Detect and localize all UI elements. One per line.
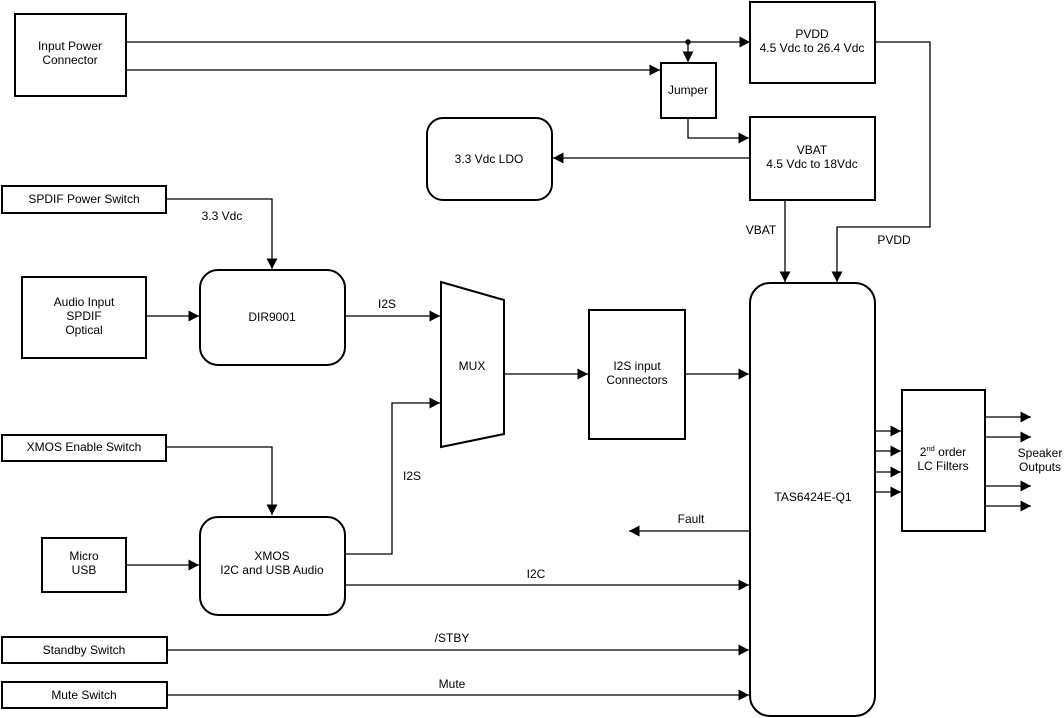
svg-text:LC Filters: LC Filters xyxy=(917,459,968,473)
svg-text:Mute: Mute xyxy=(439,677,466,691)
wire XMOS I2C to TAS6424E-Q1 xyxy=(345,584,749,586)
svg-text:XMOS Enable Switch: XMOS Enable Switch xyxy=(27,440,142,454)
svg-text:I2C and USB Audio: I2C and USB Audio xyxy=(220,563,324,577)
block Mute Switch xyxy=(2,682,167,708)
wire speaker output 4 xyxy=(985,505,1031,507)
svg-text:Standby Switch: Standby Switch xyxy=(43,643,126,657)
wire TAS output 1 to LC filter xyxy=(875,430,901,432)
block DIR9001 xyxy=(200,270,345,365)
block 2nd order LC Filters xyxy=(902,390,985,531)
wire XMOS Enable Switch to XMOS xyxy=(166,447,272,515)
svg-text:PVDD: PVDD xyxy=(877,233,911,247)
svg-text:I2S input: I2S input xyxy=(613,359,661,373)
svg-text:DIR9001: DIR9001 xyxy=(248,310,296,324)
junction dot xyxy=(685,39,691,45)
svg-text:TAS6424E-Q1: TAS6424E-Q1 xyxy=(774,490,851,504)
wire Jumper to VBAT xyxy=(688,118,749,138)
wire PVDD to TAS6424E-Q1 xyxy=(837,42,930,282)
svg-text:Mute Switch: Mute Switch xyxy=(51,688,116,702)
wire PVDD supply from Input Power Connector xyxy=(126,41,750,43)
svg-text:4.5 Vdc to 18Vdc: 4.5 Vdc to 18Vdc xyxy=(766,157,857,171)
svg-text:4.5 Vdc to 26.4 Vdc: 4.5 Vdc to 26.4 Vdc xyxy=(760,41,865,55)
svg-text:SPDIF Power Switch: SPDIF Power Switch xyxy=(28,192,139,206)
block Audio Input SPDIF Optical xyxy=(22,277,146,358)
svg-text:/STBY: /STBY xyxy=(435,631,470,645)
svg-text:I2S: I2S xyxy=(378,297,396,311)
wire Fault from TAS6424E-Q1 xyxy=(629,530,750,532)
svg-text:3.3 Vdc: 3.3 Vdc xyxy=(202,209,243,223)
svg-text:Speaker: Speaker xyxy=(1018,446,1063,460)
wire SPDIF Power Switch to DIR9001 xyxy=(166,199,272,269)
block Standby Switch xyxy=(2,637,167,663)
wire TAS output 2 to LC filter xyxy=(875,450,901,452)
block Jumper xyxy=(661,63,716,118)
wire I2S input Connectors to TAS6424E-Q1 xyxy=(685,373,749,375)
block XMOS Enable Switch xyxy=(2,435,166,461)
block Micro USB xyxy=(42,538,126,592)
svg-text:SPDIF: SPDIF xyxy=(66,309,101,323)
wire XMOS I2S to MUX xyxy=(345,403,440,554)
wire TAS output 3 to LC filter xyxy=(875,471,901,473)
svg-text:Outputs: Outputs xyxy=(1019,460,1061,474)
wire Mute to TAS6424E-Q1 xyxy=(167,694,749,696)
svg-text:3.3 Vdc LDO: 3.3 Vdc LDO xyxy=(455,152,524,166)
block XMOS xyxy=(200,517,345,615)
wire junction to Jumper top xyxy=(687,42,689,62)
wire second supply from Input Power Connector to Jumper xyxy=(126,69,660,71)
svg-text:I2S: I2S xyxy=(403,469,421,483)
svg-text:Optical: Optical xyxy=(65,323,102,337)
wire VBAT to TAS6424E-Q1 xyxy=(784,200,786,282)
wire Audio Input to DIR9001 xyxy=(146,315,199,317)
svg-text:PVDD: PVDD xyxy=(795,27,829,41)
svg-text:Fault: Fault xyxy=(678,512,705,526)
mux MUX xyxy=(441,282,504,447)
block 3.3 Vdc LDO xyxy=(427,118,552,200)
wire speaker output 3 xyxy=(985,485,1031,487)
svg-text:Connector: Connector xyxy=(42,53,97,67)
wire /STBY to TAS6424E-Q1 xyxy=(167,649,749,651)
svg-text:Connectors: Connectors xyxy=(606,373,667,387)
wire Micro USB to XMOS xyxy=(126,564,199,566)
svg-text:Input Power: Input Power xyxy=(38,39,102,53)
wire speaker output 1 xyxy=(985,416,1031,418)
svg-text:USB: USB xyxy=(72,563,97,577)
svg-text:Jumper: Jumper xyxy=(668,83,708,97)
svg-text:Micro: Micro xyxy=(69,549,99,563)
block TAS6424E-Q1 xyxy=(750,283,875,716)
svg-text:VBAT: VBAT xyxy=(797,143,828,157)
block I2S input Connectors xyxy=(589,310,685,439)
block Input Power Connector xyxy=(15,14,126,96)
wire speaker output 2 xyxy=(985,436,1031,438)
wire MUX to I2S input Connectors xyxy=(504,373,588,375)
wire VBAT to 3.3 Vdc LDO xyxy=(553,157,750,159)
svg-text:MUX: MUX xyxy=(459,359,486,373)
svg-text:I2C: I2C xyxy=(527,567,546,581)
block SPDIF Power Switch xyxy=(2,186,166,213)
svg-text:VBAT: VBAT xyxy=(746,223,777,237)
wire DIR9001 I2S to MUX xyxy=(345,315,440,317)
block VBAT xyxy=(750,117,875,200)
wire TAS output 4 to LC filter xyxy=(875,491,901,493)
svg-text:XMOS: XMOS xyxy=(254,549,289,563)
svg-text:Audio Input: Audio Input xyxy=(54,295,115,309)
block PVDD xyxy=(750,2,875,83)
